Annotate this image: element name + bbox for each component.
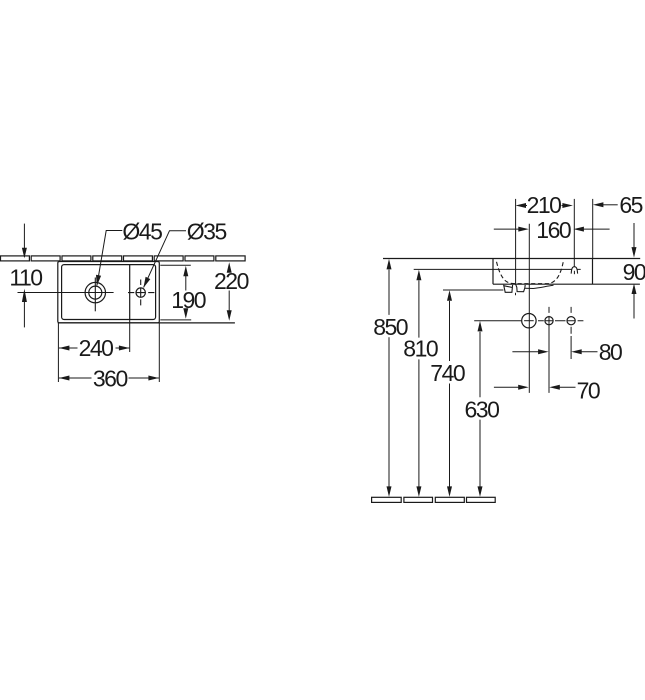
arrow 160 right (points left) [573, 227, 584, 232]
svg-text:Ø45: Ø45 [122, 218, 162, 244]
basin inner rounded rect (plan) [62, 265, 156, 320]
tap hole arch symbol [571, 267, 577, 274]
dim 110 upper line [23, 224, 25, 257]
arrow 70 right (points left) [549, 385, 560, 390]
arrow 160 left (points right) [518, 227, 529, 232]
dim 360 line [59, 377, 159, 379]
extension below left edge (360) [57, 323, 59, 382]
basin outer rect (plan) [58, 262, 160, 323]
mounting hole big circle [522, 314, 536, 328]
svg-text:80: 80 [599, 339, 622, 365]
front view: top edge + extension line (850 ref) [383, 258, 640, 260]
dim 80 line [512, 351, 597, 353]
arrow 630 down at floor [478, 486, 483, 497]
svg-text:210: 210 [527, 192, 562, 218]
drain center extension line (210 ref) [515, 199, 517, 285]
small hole horizontal center line [128, 292, 154, 294]
drain right box [516, 285, 525, 292]
arrow 810 down at floor [416, 486, 421, 497]
dim 110 lower line [23, 295, 25, 327]
dim 240 line [59, 347, 129, 349]
divider line (plan) [129, 265, 131, 320]
arrow 360 right [148, 376, 159, 381]
svg-text:65: 65 [619, 192, 642, 218]
dim 190 bottom extension [160, 319, 191, 321]
right edge extension line up (65 ref) [592, 199, 594, 259]
front view: basin right edge [592, 259, 594, 285]
arrow 240 left [59, 346, 70, 351]
arrow 850 up [387, 259, 392, 270]
dim 210 line [526, 205, 564, 207]
arrow 740 up [447, 290, 452, 301]
svg-text:Ø35: Ø35 [187, 218, 227, 244]
middle hole cross + vertical [545, 307, 553, 393]
arrow leader Ø45 [96, 275, 101, 286]
arrowheads [22, 202, 637, 497]
dim 90 line lower [633, 294, 635, 319]
arrow 850 down at floor [387, 486, 392, 497]
arrow 90 up [632, 284, 637, 295]
svg-text:630: 630 [465, 396, 500, 422]
svg-text:810: 810 [403, 336, 438, 362]
arrow 810 up [416, 270, 421, 281]
svg-text:240: 240 [79, 335, 114, 361]
hidden bowl dashed curve [497, 262, 564, 284]
arrow 630 up [478, 321, 483, 332]
dim 220 line lower [228, 291, 230, 319]
drain center dash below [515, 293, 517, 295]
arrow 240 right [119, 346, 129, 351]
arrow 740 down at floor [447, 486, 452, 497]
faucet hole outer circle [85, 282, 105, 302]
dim 65 tail [602, 204, 618, 206]
drain left box [504, 285, 513, 293]
dim 850 line [388, 270, 390, 487]
leader line for Ø35 [144, 231, 186, 288]
dim 160 line right tail [583, 228, 610, 230]
mounting hole middle circle [545, 317, 553, 325]
front view: 810 extension line [414, 268, 581, 270]
arrow 220 down [227, 310, 232, 321]
arrow 80 left (points right) [538, 349, 549, 354]
dim 90 line upper [633, 223, 635, 248]
bottom extension line to 220 [58, 322, 235, 324]
tap hole extension line (210/160/65 ref) [573, 199, 575, 267]
arrow 80 right (points left) [571, 349, 582, 354]
small hole vertical center line [140, 280, 142, 306]
big hole vertical extension (160/70 ref) [528, 224, 530, 393]
front view: 740 extension line [443, 289, 503, 291]
dim 160 line left tail [494, 228, 520, 230]
svg-text:360: 360 [93, 365, 128, 391]
wall hatch band (plan view) [1, 256, 246, 261]
right hole cross + vertical [567, 307, 575, 359]
small hole circle [136, 288, 145, 297]
drain wedge diagonal [504, 286, 513, 288]
faucet hole inner circle [89, 286, 102, 299]
faucet vertical center line [94, 278, 96, 312]
svg-text:90: 90 [623, 259, 645, 285]
extension below divider (240) [129, 320, 131, 353]
arrow 360 left [59, 376, 70, 381]
dim 630 line [479, 332, 481, 487]
svg-text:70: 70 [577, 377, 600, 403]
svg-text:220: 220 [214, 268, 249, 294]
dim 190 line upper [185, 270, 187, 291]
dim 110 extension line [18, 292, 114, 294]
arrow 90 down [632, 247, 637, 258]
front view: bottom edge + extension (90 ref) [493, 283, 640, 285]
arrow 110 up at center line [22, 289, 27, 302]
front view: basin left edge [492, 259, 494, 285]
arrow 70 left (points right) [518, 385, 529, 390]
arrow leader Ø35 [143, 277, 150, 288]
leader line for Ø45 [97, 231, 122, 286]
dim 190 line lower [185, 310, 187, 317]
svg-text:740: 740 [430, 360, 465, 386]
arrow 190 down [183, 308, 188, 319]
arrow 65 (points left) [593, 202, 604, 207]
drain right merge line [525, 285, 554, 288]
arrow 220 up [227, 262, 232, 273]
mounting hole right circle [567, 317, 575, 325]
dim 220 line upper [228, 267, 230, 272]
extension below right edge (360) [158, 323, 160, 382]
dim 70 line [494, 386, 576, 388]
arrow 110 down at wall [22, 248, 27, 258]
svg-text:160: 160 [536, 217, 571, 243]
dim 190 top extension [160, 264, 191, 266]
floor hatch band [372, 497, 496, 502]
630 extension to holes [474, 320, 521, 322]
holes center line dashes [538, 320, 583, 322]
arrow 210 left [516, 203, 527, 208]
dim 810 line [418, 280, 420, 487]
big hole cross [524, 320, 534, 322]
arrow 190 up [183, 266, 188, 277]
tap hole center dash below [573, 271, 575, 274]
svg-text:190: 190 [171, 287, 206, 313]
svg-text:110: 110 [9, 264, 42, 290]
dim 740 line [449, 301, 451, 487]
arrow 210 right [562, 203, 573, 208]
